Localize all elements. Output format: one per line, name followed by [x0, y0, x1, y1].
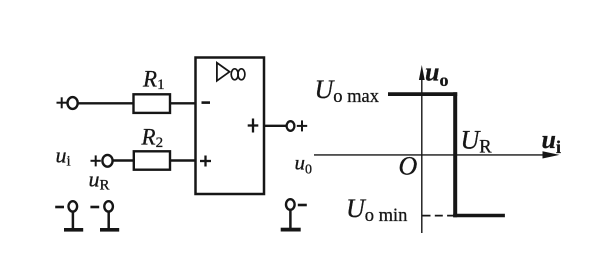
ground terminal 2 stem wire	[107, 212, 110, 229]
svg-text:O: O	[399, 152, 418, 181]
plus sign at input 1 terminal	[57, 97, 67, 108]
plus sign at input 2 terminal	[91, 155, 101, 166]
dashed line to Uomin level	[423, 215, 455, 217]
ground 3 bar	[281, 228, 301, 232]
resistor R2	[134, 151, 170, 169]
resistor R1	[134, 94, 171, 113]
wire input2 to R2	[113, 159, 134, 161]
ground 2 bar	[100, 228, 119, 232]
ground terminal 1 stem wire	[72, 212, 75, 229]
horizontal axis arrowhead	[543, 151, 560, 158]
vertical axis arrowhead	[419, 65, 425, 80]
transfer curve Uomax segment	[388, 92, 457, 96]
ground terminal 3 minus sign	[298, 204, 307, 207]
terminal circle output	[287, 121, 295, 131]
transfer curve vertical step at UR	[453, 92, 457, 217]
terminal circle input 1	[68, 97, 78, 109]
infinity symbol right loop	[238, 69, 245, 80]
op-amp gain triangle	[217, 63, 230, 81]
plus sign non-inverting input	[200, 156, 211, 167]
ground terminal 3 stem wire	[289, 210, 292, 229]
plus sign at output terminal	[297, 120, 307, 131]
infinity symbol left loop	[231, 69, 238, 80]
vertical axis uo	[421, 78, 423, 233]
ground terminal 1 minus sign	[55, 206, 64, 209]
op-amp U1 box	[196, 58, 265, 195]
ground terminal 2 circle	[104, 201, 113, 211]
ground terminal 2 minus sign	[90, 206, 99, 209]
transfer curve Uomin segment	[453, 214, 505, 217]
plus sign output inside box	[248, 119, 259, 133]
ground terminal 1 circle	[69, 201, 78, 211]
wire R2 to op-amp	[170, 159, 195, 161]
wire input1 to R1	[79, 102, 135, 104]
ground 1 bar	[64, 228, 83, 232]
wire output	[264, 125, 286, 127]
wire R1 to op-amp	[170, 102, 195, 104]
ground terminal 3 circle	[286, 199, 295, 210]
minus sign inverting input	[202, 101, 211, 104]
terminal circle input 2	[102, 155, 112, 167]
horizontal axis ui	[314, 154, 546, 156]
